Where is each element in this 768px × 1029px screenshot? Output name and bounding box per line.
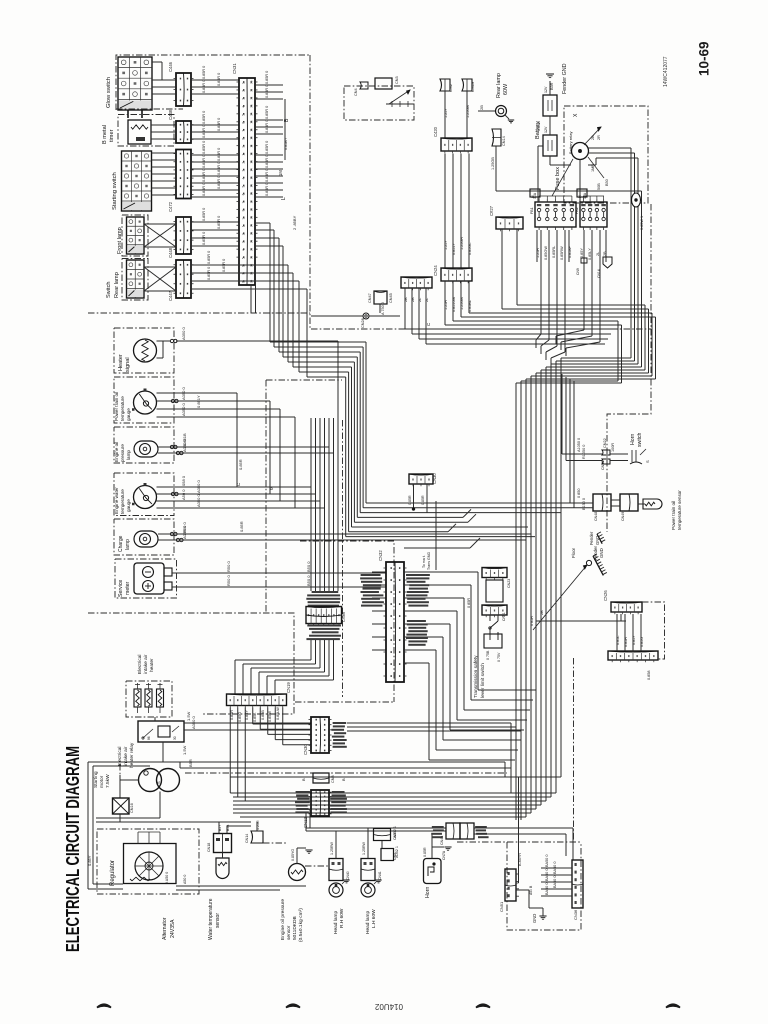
svg-text:Electrical: Electrical	[117, 747, 123, 766]
svg-text:1.25RW: 1.25RW	[362, 841, 366, 855]
svg-text:CN66: CN66	[341, 611, 346, 622]
svg-text:Head lamp: Head lamp	[333, 910, 339, 934]
svg-text:16: 16	[250, 128, 254, 132]
svg-text:FB1: FB1	[530, 207, 534, 214]
svg-text:24V35A: 24V35A	[170, 919, 176, 938]
svg-text:CN30: CN30	[303, 744, 308, 755]
svg-text:temperature: temperature	[120, 489, 125, 514]
svg-text:R50 0: R50 0	[226, 561, 231, 572]
svg-text:BA50 0: BA50 0	[545, 883, 549, 895]
svg-text:1.25Y: 1.25Y	[444, 240, 448, 250]
svg-text:0.85Y: 0.85Y	[87, 855, 92, 866]
svg-text:FB2: FB2	[575, 207, 579, 214]
svg-text:Heater: Heater	[118, 354, 124, 371]
svg-text:L.H 60W: L.H 60W	[371, 909, 377, 928]
svg-text:1.25RW: 1.25RW	[330, 841, 334, 855]
svg-text:0.85G: 0.85G	[238, 712, 242, 722]
svg-text:CN18: CN18	[207, 843, 211, 852]
svg-text:1.25R: 1.25R	[256, 820, 260, 830]
svg-text:Battery relay: Battery relay	[568, 132, 573, 154]
svg-text:CN14: CN14	[502, 136, 506, 146]
svg-text:0.858: 0.858	[647, 670, 651, 680]
svg-text:1.25GB: 1.25GB	[466, 105, 470, 118]
svg-text:Fender GND: Fender GND	[562, 63, 568, 94]
svg-text:Glow switch: Glow switch	[106, 77, 112, 108]
svg-text:12V: 12V	[544, 86, 548, 93]
svg-text:0.85R 0: 0.85R 0	[265, 141, 269, 154]
svg-text:B150 0: B150 0	[582, 498, 586, 510]
svg-text:0.85R: 0.85R	[239, 521, 244, 532]
svg-text:0.85RL: 0.85RL	[552, 246, 556, 258]
svg-text:1.25Y: 1.25Y	[444, 108, 448, 118]
svg-text:0.85YG: 0.85YG	[291, 849, 295, 861]
svg-text:GND: GND	[599, 548, 604, 558]
svg-text:intake air: intake air	[143, 654, 149, 674]
svg-text:Rear lamp: Rear lamp	[114, 272, 120, 298]
svg-text:30A: 30A	[533, 192, 537, 199]
svg-text:0.85R 0: 0.85R 0	[202, 66, 206, 79]
svg-text:A 750 0: A 750 0	[381, 302, 385, 315]
svg-text:ELECTRICAL CIRCUIT DIAGRAM: ELECTRICAL CIRCUIT DIAGRAM	[63, 746, 83, 952]
svg-text:16: 16	[250, 184, 254, 188]
svg-text:signal: signal	[125, 357, 131, 372]
svg-text:0 85R: 0 85R	[467, 598, 471, 608]
svg-text:2L: 2L	[596, 252, 600, 256]
svg-text:0.85Y: 0.85Y	[580, 248, 584, 258]
svg-text:meter: meter	[125, 581, 131, 595]
svg-text:C447: C447	[168, 290, 173, 301]
svg-text:switch: switch	[637, 432, 643, 447]
svg-text:A052 1: A052 1	[395, 846, 399, 858]
svg-text:C#27: C#27	[489, 205, 494, 216]
svg-text:B50: B50	[605, 179, 609, 186]
svg-text:CN19: CN19	[470, 81, 475, 92]
svg-text:B5R: B5R	[188, 759, 193, 767]
svg-text:A050 0: A050 0	[181, 327, 186, 340]
svg-text:0.85G: 0.85G	[640, 637, 644, 647]
svg-text:0.85LY: 0.85LY	[588, 248, 592, 260]
svg-text:A50 0: A50 0	[183, 875, 187, 884]
svg-text:11: 11	[250, 88, 254, 91]
svg-text:BA50 0: BA50 0	[553, 862, 557, 874]
svg-text:2: 2	[242, 162, 246, 164]
svg-text:Regulator: Regulator	[110, 860, 116, 886]
svg-text:CN55: CN55	[601, 461, 605, 470]
svg-text:0.85R 0: 0.85R 0	[265, 169, 269, 182]
svg-text:C438: C438	[168, 109, 173, 120]
svg-text:014U02: 014U02	[374, 1002, 403, 1011]
svg-text:A050 0: A050 0	[196, 494, 201, 507]
svg-text:CN14: CN14	[597, 269, 601, 278]
svg-text:0.85R 0: 0.85R 0	[217, 118, 221, 131]
svg-text:motor: motor	[99, 775, 105, 788]
svg-text:A050 0: A050 0	[196, 480, 201, 493]
svg-text:11: 11	[250, 256, 254, 259]
svg-text:gauge: gauge	[126, 499, 131, 512]
svg-text:0.85R: 0.85R	[238, 459, 243, 470]
svg-text:BA50 0: BA50 0	[553, 876, 557, 888]
svg-text:CN22: CN22	[603, 438, 607, 448]
svg-text:S: S	[645, 460, 650, 463]
svg-text:15: 15	[250, 176, 254, 180]
svg-text:CN26: CN26	[603, 590, 608, 601]
svg-text:0.85R 0: 0.85R 0	[202, 111, 206, 124]
svg-text:0.85R: 0.85R	[537, 121, 541, 131]
svg-text:1: 1	[242, 154, 246, 156]
svg-text:CN24: CN24	[433, 265, 438, 276]
svg-text:11: 11	[250, 200, 254, 203]
svg-text:1.5W: 1.5W	[186, 711, 191, 721]
svg-text:0.85BY: 0.85BY	[284, 137, 288, 150]
svg-text:0.85R: 0.85R	[624, 637, 628, 647]
svg-text:2R: 2R	[597, 135, 601, 140]
svg-text:heater relay: heater relay	[129, 742, 135, 768]
svg-text:0.85R 0: 0.85R 0	[202, 155, 206, 168]
svg-text:lamp: lamp	[125, 539, 131, 550]
svg-text:2 .85BY: 2 .85BY	[292, 215, 297, 230]
svg-text:A050 0: A050 0	[181, 403, 186, 416]
svg-text:0.85R 0: 0.85R 0	[202, 232, 206, 245]
svg-text:C448: C448	[168, 247, 173, 258]
svg-text:Alternator: Alternator	[162, 917, 168, 940]
svg-text:5: 5	[242, 185, 246, 187]
svg-text:GND: GND	[595, 536, 600, 545]
svg-text:0 851Y: 0 851Y	[196, 395, 201, 408]
svg-text:0.85R 0: 0.85R 0	[217, 73, 221, 86]
svg-text:50B: 50B	[597, 183, 601, 190]
svg-text:13: 13	[250, 104, 254, 108]
svg-text:gauge: gauge	[126, 408, 131, 421]
svg-text:Service: Service	[118, 580, 124, 597]
svg-text:0.85Y: 0.85Y	[632, 635, 636, 645]
svg-text:Fender: Fender	[589, 531, 594, 545]
svg-text:3: 3	[242, 241, 246, 243]
svg-text:C446: C446	[168, 61, 173, 72]
svg-text:B: B	[341, 778, 346, 781]
svg-text:8: 8	[242, 209, 246, 211]
svg-text:3: 3	[242, 170, 246, 172]
svg-text:M: M	[578, 195, 582, 198]
svg-text:0.85R 0: 0.85R 0	[202, 80, 206, 93]
svg-text:temperature: temperature	[120, 396, 125, 421]
svg-text:11: 11	[250, 144, 254, 147]
svg-text:14WC412077: 14WC412077	[663, 56, 669, 87]
svg-text:13: 13	[250, 216, 254, 220]
svg-text:6: 6	[242, 122, 246, 124]
svg-text:lever limit switch: lever limit switch	[480, 663, 486, 698]
svg-text:CN49: CN49	[621, 512, 625, 521]
svg-text:B50 0: B50 0	[306, 575, 311, 586]
svg-text:4: 4	[242, 178, 246, 180]
svg-text:5: 5	[242, 114, 246, 116]
svg-text:0.85GW: 0.85GW	[544, 246, 548, 260]
svg-text:0.85R 0: 0.85R 0	[217, 148, 221, 161]
svg-text:(0.5±0.1kg·cm²): (0.5±0.1kg·cm²)	[298, 908, 304, 942]
svg-text:CN36: CN36	[573, 909, 578, 920]
svg-text:0.85R 0: 0.85R 0	[202, 141, 206, 154]
svg-text:A05B 0: A05B 0	[182, 525, 187, 539]
svg-text:B.85YR: B.85YR	[518, 853, 522, 866]
svg-text:0.85R: 0.85R	[421, 495, 425, 505]
svg-text:0 850: 0 850	[577, 488, 581, 498]
svg-text:1M: 1M	[278, 170, 283, 176]
svg-text:CN7A: CN7A	[442, 850, 446, 860]
svg-text:CN23: CN23	[507, 579, 511, 588]
svg-text:CN31: CN31	[232, 63, 237, 74]
svg-text:A1050 0: A1050 0	[577, 438, 581, 452]
svg-text:0.85L: 0.85L	[616, 635, 620, 645]
svg-text:A50 0: A50 0	[181, 489, 186, 500]
svg-text:CN30: CN30	[432, 473, 437, 484]
svg-text:GND: GND	[532, 914, 537, 923]
svg-text:058 0: 058 0	[181, 475, 186, 486]
svg-text:12: 12	[250, 208, 254, 212]
svg-text:B5B: B5B	[226, 824, 230, 831]
svg-text:0.85L: 0.85L	[253, 712, 257, 722]
svg-text:10: 10	[250, 136, 254, 140]
svg-text:CN16: CN16	[130, 803, 134, 813]
svg-text:L: L	[281, 197, 287, 200]
svg-text:Starting switch: Starting switch	[112, 172, 118, 210]
svg-text:0.851Y: 0.851Y	[452, 242, 456, 255]
svg-text:B: B	[301, 778, 306, 781]
svg-text:10: 10	[250, 192, 254, 196]
svg-text:A50 B: A50 B	[529, 885, 533, 895]
svg-text:R50 0: R50 0	[226, 575, 231, 586]
svg-text:0.85R 0: 0.85R 0	[217, 176, 221, 189]
svg-text:12: 12	[250, 96, 254, 100]
svg-text:S: S	[156, 781, 161, 784]
svg-text:1: 1	[242, 82, 246, 84]
svg-text:0.85W: 0.85W	[268, 711, 272, 722]
svg-text:0.85LW: 0.85LW	[276, 707, 280, 720]
svg-text:15: 15	[250, 120, 254, 124]
svg-text:sensor: sensor	[286, 925, 292, 940]
svg-text:16: 16	[250, 240, 254, 244]
svg-text:100R: 100R	[611, 443, 615, 452]
svg-text:Power train oil: Power train oil	[114, 392, 119, 421]
svg-text:2: 2	[242, 90, 246, 92]
svg-text:CN14: CN14	[245, 834, 249, 843]
svg-text:B metal: B metal	[102, 125, 108, 144]
svg-text:86: 86	[147, 736, 151, 740]
svg-text:0.85RW: 0.85RW	[560, 246, 564, 260]
svg-text:4: 4	[242, 249, 246, 251]
svg-text:CN32: CN32	[378, 550, 383, 561]
svg-text:Charge: Charge	[118, 535, 124, 552]
svg-text:C472: C472	[168, 201, 173, 212]
svg-text:0 75B: 0 75B	[486, 650, 490, 660]
svg-text:A050 0: A050 0	[181, 387, 186, 400]
svg-text:5: 5	[242, 257, 246, 259]
svg-text:14: 14	[250, 224, 254, 228]
svg-text:1: 1	[242, 225, 246, 227]
svg-text:0.85B: 0.85B	[261, 710, 265, 720]
svg-text:Engine oil: Engine oil	[114, 442, 119, 462]
svg-text:Starting: Starting	[93, 771, 99, 788]
svg-text:CN51: CN51	[502, 612, 506, 621]
svg-text:CN48: CN48	[594, 512, 598, 521]
svg-text:10: 10	[250, 247, 254, 251]
svg-text:B50 0: B50 0	[306, 561, 311, 572]
svg-text:4: 4	[242, 106, 246, 108]
svg-text:12: 12	[250, 152, 254, 156]
svg-text:0.85R 0: 0.85R 0	[265, 120, 269, 133]
svg-text:temperature sensor: temperature sensor	[677, 490, 682, 530]
svg-text:0.85R 0: 0.85R 0	[265, 85, 269, 98]
svg-text:10: 10	[250, 80, 254, 84]
svg-text:Electrical: Electrical	[137, 655, 143, 674]
svg-text:0.85GL: 0.85GL	[468, 243, 472, 255]
svg-text:0.85R 0: 0.85R 0	[217, 216, 221, 229]
svg-text:A052 1: A052 1	[393, 826, 397, 838]
svg-text:60W: 60W	[503, 83, 509, 95]
svg-text:9: 9	[242, 146, 246, 148]
svg-text:CN41: CN41	[378, 871, 382, 880]
svg-text:Power train oil: Power train oil	[671, 501, 676, 530]
svg-text:7: 7	[242, 201, 246, 203]
svg-text:0.85W 1: 0.85W 1	[640, 216, 644, 230]
svg-text:CN28: CN28	[361, 318, 365, 328]
svg-text:CN45: CN45	[389, 293, 393, 303]
svg-text:Trans GND: Trans GND	[427, 552, 431, 570]
svg-text:CN47: CN47	[368, 293, 372, 303]
svg-text:0.85R 0: 0.85R 0	[202, 125, 206, 138]
svg-text:0.85R: 0.85R	[408, 495, 412, 505]
svg-text:Horn: Horn	[630, 434, 636, 445]
svg-text:1.25GB: 1.25GB	[491, 157, 495, 170]
svg-text:5011DKDB: 5011DKDB	[292, 916, 298, 940]
svg-text:1.25GR: 1.25GR	[460, 237, 464, 250]
svg-text:timer: timer	[109, 129, 115, 142]
svg-text:30: 30	[173, 736, 177, 740]
svg-text:2B: 2B	[479, 105, 484, 110]
svg-text:0.85R 0: 0.85R 0	[265, 183, 269, 196]
svg-text:0 85R: 0 85R	[530, 616, 534, 626]
svg-text:0.85R 0: 0.85R 0	[202, 208, 206, 221]
svg-text:13: 13	[250, 160, 254, 164]
svg-text:B5Y: B5Y	[218, 824, 222, 831]
svg-text:intake air: intake air	[123, 746, 129, 766]
svg-text:Water temperature: Water temperature	[208, 898, 214, 940]
svg-text:0.85R 0: 0.85R 0	[207, 251, 211, 264]
svg-text:BA50 0: BA50 0	[545, 869, 549, 881]
svg-text:C420: C420	[433, 126, 438, 137]
svg-text:0.85R 0: 0.85R 0	[265, 71, 269, 84]
svg-text:10A: 10A	[583, 192, 587, 199]
svg-text:Switch: Switch	[106, 282, 112, 298]
svg-text:1.5W: 1.5W	[182, 745, 187, 755]
svg-text:12V: 12V	[544, 126, 548, 133]
svg-text:To ma t.: To ma t.	[422, 555, 426, 568]
svg-text:Transmission safety: Transmission safety	[473, 655, 479, 698]
svg-text:CN4: CN4	[354, 88, 358, 96]
svg-text:14: 14	[250, 112, 254, 116]
svg-text:R.H 60W: R.H 60W	[339, 908, 345, 928]
svg-text:2B: 2B	[591, 135, 595, 140]
svg-text:Floor: Floor	[571, 547, 576, 558]
svg-text:Horn: Horn	[425, 887, 431, 898]
svg-text:0 75V: 0 75V	[497, 652, 501, 662]
svg-text:0.85R 0: 0.85R 0	[265, 155, 269, 168]
svg-text:2B: 2B	[540, 610, 544, 615]
svg-text:A050 0: A050 0	[191, 716, 196, 729]
svg-text:7: 7	[242, 130, 246, 132]
svg-text:Engine oil pressure: Engine oil pressure	[280, 899, 286, 940]
svg-text:CN3: CN3	[395, 76, 399, 84]
svg-text:3: 3	[242, 98, 246, 100]
svg-text:0 A50 0: 0 A50 0	[165, 872, 169, 884]
svg-text:lamp: lamp	[126, 450, 131, 460]
svg-text:0.85R 0: 0.85R 0	[217, 162, 221, 175]
svg-text:CN2: CN2	[448, 83, 453, 92]
svg-text:CN51: CN51	[499, 901, 504, 912]
svg-text:CN19: CN19	[286, 682, 291, 693]
svg-text:2: 2	[242, 233, 246, 235]
svg-text:R1050 0: R1050 0	[582, 445, 586, 459]
svg-text:10-69: 10-69	[697, 41, 712, 76]
svg-text:0.85R 0: 0.85R 0	[202, 169, 206, 182]
svg-text:B5R: B5R	[550, 82, 554, 90]
svg-text:pressure: pressure	[120, 444, 125, 462]
svg-text:9: 9	[242, 217, 246, 219]
svg-text:0.85R: 0.85R	[423, 847, 427, 857]
svg-text:CN40: CN40	[346, 871, 350, 880]
svg-text:Rear lamp: Rear lamp	[496, 73, 502, 98]
svg-text:Fuse box: Fuse box	[555, 167, 561, 190]
svg-text:Fender: Fender	[593, 546, 598, 560]
svg-text:0.85R 0: 0.85R 0	[265, 106, 269, 119]
svg-text:sensor: sensor	[215, 913, 221, 928]
svg-text:14: 14	[250, 168, 254, 172]
svg-text:1MR: 1MR	[591, 164, 595, 172]
svg-text:7.5kW: 7.5kW	[105, 774, 111, 788]
svg-text:BA50 0: BA50 0	[545, 855, 549, 867]
svg-text:0.85R 0: 0.85R 0	[202, 183, 206, 196]
svg-text:CN9: CN9	[576, 268, 580, 275]
svg-text:CN8: CN8	[331, 775, 335, 783]
svg-text:Head lamp: Head lamp	[365, 910, 371, 934]
svg-text:15: 15	[250, 232, 254, 236]
svg-text:8: 8	[242, 138, 246, 140]
svg-text:heater: heater	[149, 658, 155, 672]
svg-text:A050 0: A050 0	[182, 439, 187, 452]
svg-text:6: 6	[242, 193, 246, 195]
svg-text:Engine water: Engine water	[114, 487, 119, 514]
